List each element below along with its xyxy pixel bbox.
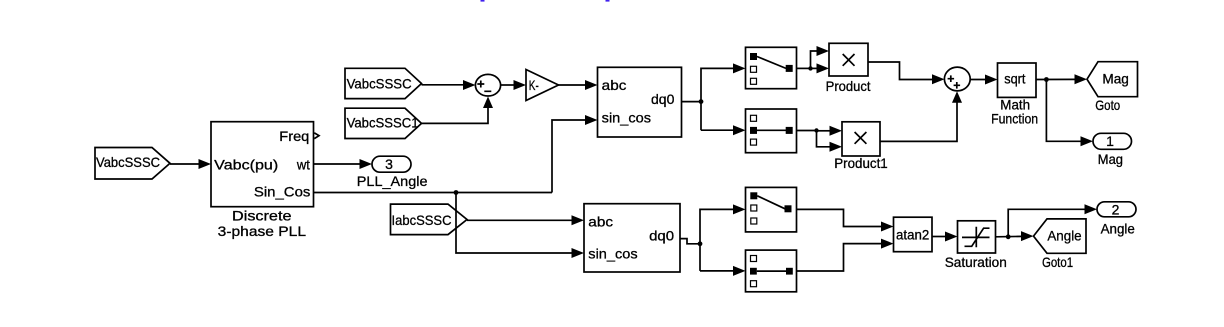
svg-text:Goto: Goto [1095,97,1120,113]
svg-text:sqrt: sqrt [1004,71,1025,87]
wire atan2 to saturation [932,232,958,242]
junction saturation out [1006,234,1011,239]
wire sum2 to sqrt [970,75,997,85]
junction upper dq0 out [699,99,704,104]
wire saturation out [996,235,1023,237]
svg-text:Function: Function [991,110,1038,126]
wire split to selector2 [701,125,746,135]
junction sin_cos split [454,190,459,195]
svg-text:VabcSSSC1: VabcSSSC1 [347,114,419,130]
blue speck 1 [481,0,485,2]
svg-text:dq0: dq0 [651,91,675,107]
block Saturation [945,221,1007,270]
svg-text:Sin_Cos: Sin_Cos [254,184,311,200]
svg-text:IabcSSSC: IabcSSSC [392,212,452,228]
svg-text:Angle: Angle [1047,227,1081,243]
svg-text:abc: abc [602,77,627,93]
svg-text:dq0: dq0 [649,228,674,244]
svg-text:Mag: Mag [1098,151,1123,167]
svg-text:Saturation: Saturation [945,254,1007,270]
wire sum1 to gain [501,80,526,90]
sum1 circle +- [475,74,500,96]
junction lower dq0 out [698,241,703,246]
wire lower dq0 out [680,239,700,244]
outport 3 PLL_Angle [357,156,428,189]
wire VabcSSSC to sum1 [422,80,476,90]
wire split to selector1 [701,63,746,130]
wire junction down to outport 1 [1046,80,1093,147]
port Freq unconnected mark [314,133,319,139]
selector4 block [746,250,797,292]
wire product1 to sum2 bottom [880,91,962,141]
svg-text:sin_cos: sin_cos [588,246,637,262]
svg-text:sin_cos: sin_cos [602,110,651,126]
junction sqrt out [1044,77,1049,82]
wire selector2 to product1 [797,126,843,152]
svg-text:3-phase PLL: 3-phase PLL [218,223,307,239]
svg-text:Vabc(pu): Vabc(pu) [214,157,278,173]
from tag VabcSSSC (top) [345,68,422,98]
wire VabcSSSC to PLL input [170,159,211,169]
blue speck 2 [606,0,610,2]
wire selector1 to product [797,46,830,73]
block abc-dq0 lower [584,204,680,272]
selector3 block [746,187,797,232]
goto tag Angle [1034,219,1087,270]
wire sqrt out [1036,78,1076,80]
outport 2 Angle [1097,201,1136,236]
svg-text:Product: Product [826,78,871,94]
block abc-dq0 upper [598,67,682,137]
svg-text:Angle: Angle [1101,220,1135,236]
wire product to sum2 [868,62,945,84]
wire VabcSSSC1 to sum1 bottom [422,97,494,124]
svg-text:wt: wt [296,157,310,173]
selector1 block [746,47,797,88]
wire gain to upper dq0 abc [559,80,598,90]
wire IabcSSSC to lower dq0 abc [467,215,584,225]
wire Sin_Cos main [314,192,553,194]
arrow into goto Angle [1021,231,1034,241]
svg-text:2: 2 [1112,201,1120,217]
svg-text:Goto1: Goto1 [1042,254,1073,270]
selector2 block [746,109,797,153]
block sqrt Math Function [991,63,1038,126]
from tag VabcSSSC (left) [95,148,170,180]
arrow into goto Mag [1075,74,1088,84]
wire selector3 to atan2 in1 [797,209,894,231]
gain K- [526,70,559,101]
wire split to selector3 [700,204,746,271]
block Product [826,43,871,94]
svg-text:Product1: Product1 [834,155,888,171]
wire sin_cos down branch to lower dq0 [456,193,584,259]
svg-text:1: 1 [1106,133,1114,149]
wire wt to PLL_Angle oval [314,159,373,169]
svg-text:Mag: Mag [1102,70,1129,86]
block atan2 [894,217,933,252]
svg-text:VabcSSSC: VabcSSSC [347,75,412,91]
sum2 circle ++ [944,67,970,91]
wire junction up to outport 2 [1008,204,1097,237]
from tag IabcSSSC [391,204,468,235]
wire upper dq0 out [682,101,702,103]
svg-text:PLL_Angle: PLL_Angle [357,173,428,189]
wire sin_cos up branch to upper dq0 [552,115,598,193]
svg-text:abc: abc [588,214,613,230]
svg-text:VabcSSSC: VabcSSSC [96,154,160,170]
block Product1 [834,122,888,171]
from tag VabcSSSC1 [345,108,422,138]
svg-text:Freq: Freq [279,128,309,144]
outport 1 Mag [1093,133,1132,167]
goto tag Mag [1087,62,1138,113]
block Discrete 3-phase PLL [211,122,314,239]
svg-text:Discrete: Discrete [232,208,292,224]
wire split to selector4 [700,266,746,276]
svg-text:K-: K- [529,77,539,93]
svg-text:atan2: atan2 [896,226,929,242]
svg-text:3: 3 [385,156,393,172]
wire selector4 to atan2 in2 [797,239,894,271]
